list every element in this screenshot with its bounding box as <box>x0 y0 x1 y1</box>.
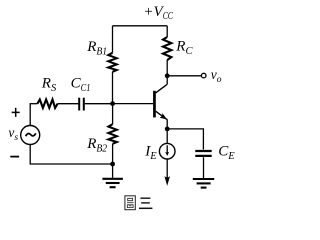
source vs <box>8 125 39 144</box>
wire top supply rail <box>113 25 168 27</box>
wire base <box>113 103 154 105</box>
node VCC label <box>143 4 173 22</box>
wire RC to collector node <box>166 60 168 76</box>
resistor RB1 <box>86 39 117 72</box>
ground below CE <box>193 157 214 187</box>
resistor RS <box>37 75 57 108</box>
terminal vo open circle <box>201 73 206 78</box>
wire emitter vertical <box>166 120 168 129</box>
wire left column from rail to RB1 <box>112 26 114 53</box>
node bottom junction dot <box>110 162 115 167</box>
wire output <box>167 75 201 77</box>
wire right column from rail to RC <box>166 26 168 37</box>
wire IE to arrow <box>166 159 168 183</box>
node emitter junction dot <box>165 126 170 131</box>
wire base node to RB2 <box>112 104 114 125</box>
resistor RC <box>163 37 193 60</box>
wire collector vertical <box>166 76 168 84</box>
wire RB2 to bottom node <box>112 144 114 164</box>
wire source to RS <box>30 103 38 105</box>
wire CC1 to base node <box>85 103 113 105</box>
wire RS to CC1 <box>58 103 79 105</box>
caption figure 3 glyph san <box>139 198 152 208</box>
plus polarity mark <box>12 108 20 117</box>
node base junction dot <box>110 101 115 106</box>
ground below RB2 node <box>102 164 123 187</box>
minus polarity mark <box>10 156 19 158</box>
resistor RB2 <box>86 124 117 154</box>
wire RB1 to base node <box>112 72 114 104</box>
wire emitter node to IE <box>166 129 168 144</box>
caption figure 3 glyph tu <box>125 196 135 210</box>
arrow current direction <box>164 176 170 186</box>
capacitor CE <box>195 144 235 163</box>
wire source top lead <box>29 104 31 126</box>
capacitor CC1 <box>71 75 91 110</box>
node collector junction dot <box>165 73 170 78</box>
wire emitter node to CE <box>167 129 203 150</box>
wire source bottom lead <box>30 144 112 164</box>
transistor Q1 <box>153 84 167 119</box>
current source IE <box>144 143 175 162</box>
